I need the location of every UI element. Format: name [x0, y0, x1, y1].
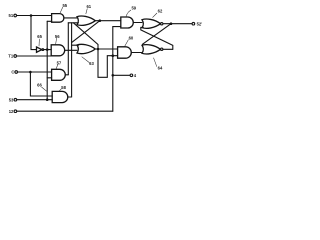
and-gate 58	[52, 91, 68, 102]
and-gate 59	[121, 17, 133, 28]
wire 63 output	[95, 48, 117, 50]
node 60 lower input junction	[112, 54, 115, 57]
node 61 output junction	[99, 19, 102, 22]
svg-text:C: C	[11, 70, 14, 75]
node output junction	[170, 22, 173, 25]
svg-text:63: 63	[89, 61, 94, 66]
wire cross-couple diagonal A	[73, 23, 98, 49]
svg-text:52': 52'	[197, 21, 203, 26]
terminal 54 mid circle	[130, 74, 133, 77]
wire I4 row	[17, 99, 52, 101]
wire cross-couple diagonal D2	[141, 27, 173, 49]
wire S row	[17, 15, 52, 17]
or-gate 61	[77, 16, 95, 25]
svg-text:57: 57	[57, 60, 62, 65]
wire I5 bottom row	[17, 110, 113, 112]
wire inverter output	[44, 49, 52, 51]
node inverter-out junction	[46, 48, 49, 51]
svg-text:64: 64	[158, 66, 163, 71]
and-gate 56	[51, 45, 65, 56]
wire 56 output	[65, 49, 77, 51]
svg-text:60: 60	[129, 35, 134, 40]
node mid terminal junction	[112, 74, 115, 77]
wire column from 57 output	[67, 23, 69, 75]
terminal 52' output circle	[192, 22, 195, 25]
wire column x112.8	[113, 27, 121, 112]
wire feedback loop down-around	[98, 49, 118, 77]
node 63 output junction	[97, 48, 100, 51]
terminal T1 input circle	[14, 55, 17, 58]
wire 55 lower input stub	[47, 20, 51, 22]
or-gate 63	[77, 44, 95, 53]
terminal 51 input circle	[14, 14, 17, 17]
svg-text:55: 55	[62, 3, 67, 8]
bubble 64 output	[161, 48, 163, 50]
svg-text:12: 12	[9, 109, 14, 114]
wire mid terminal row	[113, 74, 130, 76]
wire 64 output	[163, 48, 173, 50]
svg-text:T1: T1	[8, 54, 14, 59]
svg-text:59: 59	[131, 6, 136, 11]
svg-text:65: 65	[37, 34, 42, 39]
wire T row	[17, 55, 52, 57]
label leaders	[39, 7, 157, 91]
bubble 62 output	[161, 23, 163, 25]
or-gate 62	[142, 19, 161, 28]
and-gate 57	[52, 69, 66, 80]
wire 58 output	[68, 96, 72, 98]
or-gate 64	[142, 45, 161, 54]
wire C branch down to 58	[30, 72, 52, 96]
wire cross-couple diagonal B	[72, 21, 100, 43]
svg-text:53: 53	[9, 97, 14, 102]
terminal C input circle	[15, 71, 18, 74]
wire 61 lower input horizontal	[68, 22, 78, 24]
svg-text:61: 61	[86, 4, 91, 9]
node S junction	[30, 14, 33, 17]
wire 63 upper input stub	[72, 44, 79, 46]
wire column from 58 output	[71, 23, 73, 97]
svg-text:62: 62	[158, 9, 163, 14]
inverter 65	[37, 47, 42, 52]
svg-text:56: 56	[55, 34, 60, 39]
wire 57 output	[65, 74, 68, 76]
wire 57 lower input stub	[47, 77, 51, 79]
wire S branch down to inverter	[31, 16, 37, 50]
node C junction	[29, 71, 32, 74]
terminal 53 input circle	[14, 98, 17, 101]
wire 61 output long	[95, 20, 121, 22]
and-gate 60	[118, 47, 132, 58]
wire 55 output	[64, 17, 78, 19]
wire cross-couple diagonal D1	[142, 24, 171, 45]
and-gate 55	[52, 14, 64, 23]
node column-I4 junction	[46, 98, 49, 101]
terminal 12 input circle	[14, 110, 17, 113]
svg-text:66: 66	[37, 83, 42, 88]
svg-text:51: 51	[9, 13, 14, 18]
wire column x47	[46, 21, 48, 99]
wire 60 output	[131, 52, 141, 54]
svg-text:58: 58	[61, 85, 66, 90]
wire C row	[18, 71, 52, 73]
wire 62 output	[163, 23, 192, 25]
wire 59 output	[133, 22, 142, 24]
